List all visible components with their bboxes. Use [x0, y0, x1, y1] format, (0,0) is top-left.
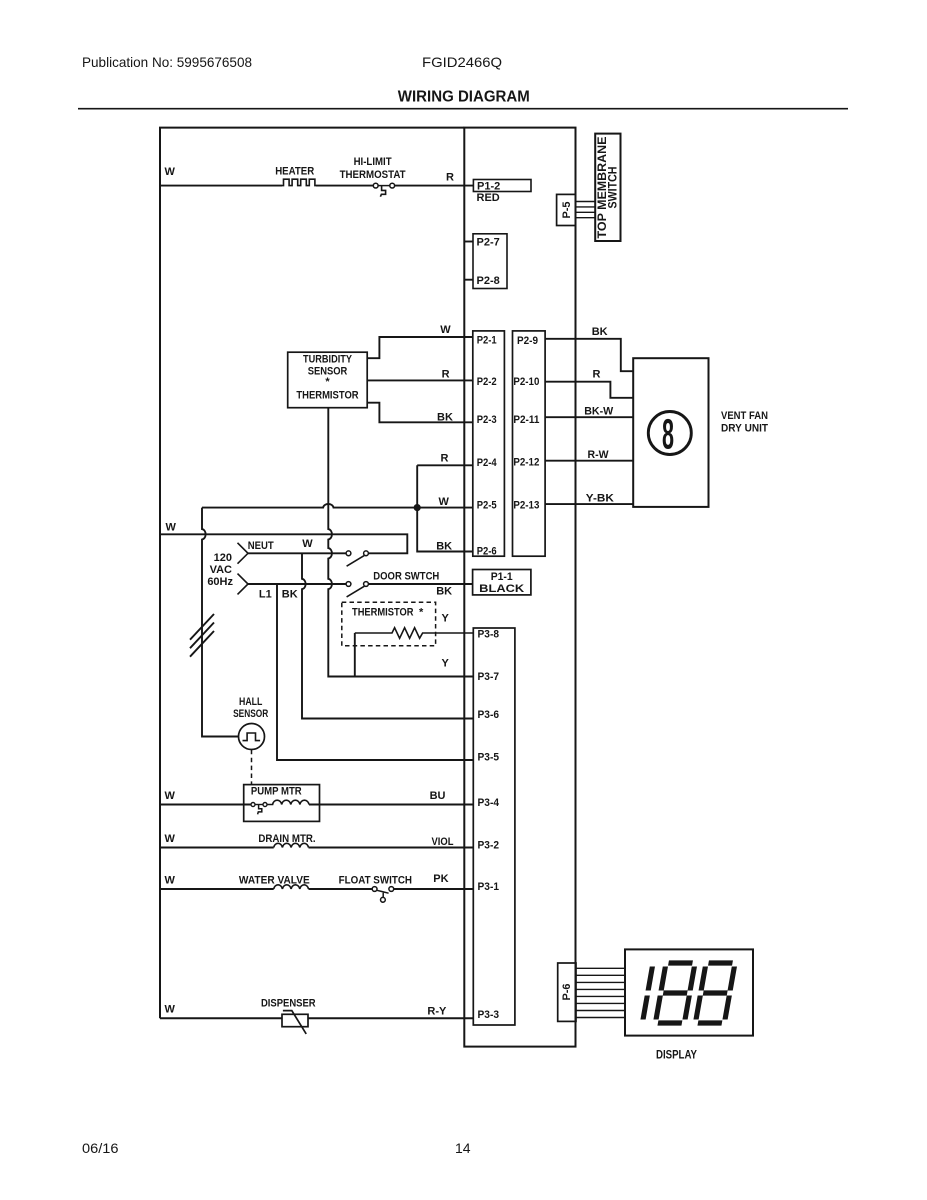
wire Y-BK P2-13 to vent fan [545, 503, 633, 505]
svg-text:BK: BK [437, 411, 453, 423]
wire BK P2-9 to vent fan [545, 339, 633, 371]
vent fan dry unit box [633, 358, 708, 507]
wire W drop to P3-6 [302, 553, 473, 718]
turbidity sensor box [288, 352, 368, 408]
svg-text:P3-2: P3-2 [478, 840, 500, 852]
svg-text:PK: PK [433, 873, 448, 885]
hall sensor [239, 724, 265, 750]
title rule [78, 108, 848, 110]
svg-text:W: W [165, 875, 176, 887]
thermistor resistor [355, 628, 474, 639]
display box [625, 949, 753, 1035]
svg-text:P2-3: P2-3 [477, 414, 497, 426]
svg-text:WATER VALVE: WATER VALVE [239, 874, 310, 886]
svg-text:NEUT: NEUT [248, 540, 274, 552]
dispenser actuator [282, 1011, 308, 1034]
svg-text:BU: BU [430, 790, 446, 802]
svg-text:P2-9: P2-9 [517, 335, 538, 347]
door switch neutral contacts [346, 551, 368, 566]
svg-text:BK: BK [282, 589, 298, 601]
wire turbidity R to P2-2 [367, 379, 473, 381]
svg-text:Y-BK: Y-BK [586, 493, 614, 505]
door switch line contacts [346, 582, 368, 597]
connector P2-9..P2-13 [513, 331, 546, 556]
drain motor coil [274, 843, 309, 847]
top membrane switch box [595, 134, 620, 241]
svg-text:THERMISTOR: THERMISTOR [352, 607, 414, 619]
svg-text:120: 120 [214, 552, 232, 564]
thermistor left leg [354, 633, 356, 677]
svg-text:Y: Y [442, 612, 450, 624]
connector P1-2 [473, 180, 531, 192]
svg-text:BK: BK [592, 326, 608, 338]
svg-text:P3-6: P3-6 [478, 709, 500, 721]
svg-text:R-Y: R-Y [427, 1005, 447, 1017]
ribbon wires P-6 to display [576, 968, 625, 1017]
cable slashes [190, 614, 214, 657]
ribbon wires P-5 to membrane switch [576, 202, 596, 218]
thermistor dashed box [342, 602, 436, 645]
wire water valve to float switch [309, 888, 373, 890]
wire turbidity W to P2-1 [367, 337, 473, 358]
connector P3 [473, 628, 515, 1025]
svg-text:W: W [165, 790, 176, 802]
wire BK drop to P2-6 [417, 508, 473, 552]
svg-text:DISPENSER: DISPENSER [261, 997, 316, 1009]
wire R P2-10 to vent fan [545, 382, 633, 398]
svg-text:60Hz: 60Hz [207, 576, 233, 588]
wire W to drain motor [160, 847, 274, 849]
svg-text:SENSOR: SENSOR [233, 708, 268, 720]
connector P-6 [558, 963, 576, 1021]
svg-text:8: 8 [662, 411, 674, 458]
wire BU pump to P3-4 [309, 804, 473, 806]
wire W to P2-5 [202, 504, 473, 508]
svg-text:W: W [165, 166, 176, 178]
water valve coil [274, 885, 309, 889]
svg-text:14: 14 [455, 1140, 471, 1156]
svg-text:P1-1: P1-1 [491, 571, 513, 583]
svg-text:VAC: VAC [210, 564, 232, 576]
svg-text:PUMP MTR: PUMP MTR [251, 786, 302, 798]
svg-text:P2-1: P2-1 [477, 335, 497, 347]
svg-text:*: * [325, 376, 330, 388]
pump motor box [244, 785, 320, 822]
svg-text:P2-7: P2-7 [477, 237, 500, 249]
svg-text:P3-3: P3-3 [478, 1009, 500, 1021]
connector P2-1..P2-6 [473, 331, 505, 556]
svg-text:WIRING DIAGRAM: WIRING DIAGRAM [398, 89, 530, 106]
enclosure left panel (top and left edges) [160, 128, 464, 1019]
svg-text:HI-LIMIT: HI-LIMIT [354, 156, 392, 168]
svg-text:P3-1: P3-1 [478, 881, 500, 893]
svg-text:FLOAT SWITCH: FLOAT SWITCH [339, 874, 412, 886]
svg-text:TURBIDITY: TURBIDITY [303, 353, 353, 365]
svg-text:W: W [165, 1004, 176, 1016]
hi-limit thermostat switch [373, 183, 394, 196]
svg-text:R: R [446, 172, 454, 184]
wire L1 to door switch [248, 583, 346, 585]
svg-text:P2-10: P2-10 [513, 376, 539, 388]
svg-text:BK-W: BK-W [584, 405, 614, 417]
svg-text:HALL: HALL [239, 696, 263, 708]
wire R-W P2-12 to vent fan [545, 460, 633, 462]
wire PK float switch to P3-1 [394, 888, 474, 890]
svg-text:P1-2: P1-2 [477, 180, 500, 192]
svg-text:BLACK: BLACK [479, 583, 524, 595]
svg-text:R: R [593, 369, 601, 381]
wire thermostat to P1-2 [395, 185, 474, 187]
wire BK door switch to P1-1 [368, 583, 472, 585]
line chevron L1 [238, 574, 249, 595]
svg-text:SWITCH: SWITCH [608, 167, 620, 209]
svg-text:P3-8: P3-8 [478, 628, 500, 640]
svg-text:*: * [419, 607, 424, 619]
svg-text:FGID2466Q: FGID2466Q [422, 54, 502, 70]
svg-text:W: W [302, 538, 313, 550]
svg-text:P2-2: P2-2 [477, 376, 497, 388]
svg-text:W: W [439, 496, 450, 508]
connector P1-1 [473, 570, 531, 595]
wire NEUT to door switch [248, 552, 346, 554]
svg-text:R-W: R-W [588, 449, 610, 461]
heater element [282, 179, 316, 185]
wire heater to hi-limit thermostat [316, 185, 373, 187]
svg-text:P2-12: P2-12 [513, 457, 539, 469]
svg-text:DOOR SWTCH: DOOR SWTCH [373, 571, 439, 583]
svg-text:Publication No: 5995676508: Publication No: 5995676508 [82, 54, 252, 70]
svg-text:P2-5: P2-5 [477, 499, 497, 511]
svg-text:THERMISTOR: THERMISTOR [296, 390, 358, 402]
wire VIOL drain to P3-2 [309, 847, 474, 849]
hall sensor signal dashed wire [251, 750, 253, 785]
svg-text:P3-4: P3-4 [478, 797, 500, 809]
wire stub P2-7 [464, 241, 473, 243]
wire R riser to P2-4 [417, 465, 473, 507]
svg-text:VIOL: VIOL [432, 836, 454, 848]
svg-text:RED: RED [477, 192, 500, 204]
svg-text:R: R [442, 368, 450, 380]
svg-text:P2-11: P2-11 [513, 414, 539, 426]
svg-text:P2-13: P2-13 [513, 499, 539, 511]
svg-text:DRY UNIT: DRY UNIT [721, 423, 768, 435]
wire turbidity common to P3-7 (Y) [328, 408, 473, 677]
svg-text:BK: BK [436, 585, 452, 597]
svg-text:HEATER: HEATER [275, 166, 314, 178]
vent fan symbol circle [648, 412, 691, 455]
neutral chevron [238, 543, 249, 564]
svg-text:R: R [441, 453, 449, 465]
svg-text:06/16: 06/16 [82, 1140, 119, 1156]
wire W to pump motor [160, 804, 251, 806]
display seven-segment 188 [642, 963, 735, 1023]
svg-text:P-5: P-5 [561, 202, 573, 219]
svg-text:P3-5: P3-5 [478, 752, 500, 764]
wire BK drop to P3-5 [277, 584, 473, 760]
svg-text:DISPLAY: DISPLAY [656, 1050, 697, 1062]
connector P-5 [557, 194, 576, 225]
connector P2-7 P2-8 [473, 234, 507, 289]
wire W to water valve [160, 888, 274, 890]
svg-text:P2-8: P2-8 [477, 275, 500, 287]
svg-text:P2-6: P2-6 [477, 546, 497, 558]
svg-text:Y: Y [442, 657, 450, 669]
svg-text:W: W [165, 833, 176, 845]
wire W bus to door switch [160, 534, 407, 553]
pump motor switch [251, 803, 267, 815]
svg-text:BK: BK [436, 540, 452, 552]
wire stub P2-8 [464, 279, 473, 281]
svg-text:W: W [440, 324, 451, 336]
float switch [372, 887, 393, 903]
svg-text:P-6: P-6 [561, 984, 573, 1001]
svg-text:W: W [166, 521, 177, 533]
junction dot P2-5 node [414, 505, 420, 511]
wire turbidity BK to P2-3 [367, 403, 473, 423]
wire W dispenser to P3-3 (bottom edge) [160, 1017, 473, 1019]
wire W to heater [160, 185, 282, 187]
svg-text:L1: L1 [259, 588, 272, 600]
svg-text:VENT FAN: VENT FAN [721, 410, 768, 422]
wire BK-W P2-11 to vent fan [545, 416, 633, 418]
svg-text:P3-7: P3-7 [478, 671, 500, 683]
svg-text:P2-4: P2-4 [477, 457, 498, 469]
svg-text:THERMOSTAT: THERMOSTAT [340, 169, 406, 181]
control board enclosure (right panel) [464, 128, 575, 1047]
wire W to hall sensor [202, 508, 239, 737]
pump motor coil [267, 800, 309, 804]
